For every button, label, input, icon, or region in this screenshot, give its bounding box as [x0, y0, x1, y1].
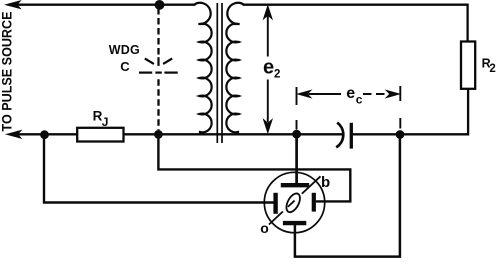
- node junction dot ec right / tube cathode return: [396, 130, 405, 139]
- winding C dashed arrow symbol: [139, 57, 178, 72]
- label e2: [263, 57, 280, 81]
- node junction dot ec left / tube anode: [292, 130, 301, 139]
- label ec: [346, 85, 362, 107]
- resistor R1: [77, 109, 123, 142]
- tube V1 centre ellipse with dashed diagonal: [269, 176, 321, 224]
- svg-text:TO PULSE SOURCE: TO PULSE SOURCE: [0, 12, 15, 132]
- wire bottom rail left (to pulse source, with arrowhead): [7, 131, 78, 139]
- wire top rail right: [243, 5, 468, 42]
- wire winding C dashed link lower: [157, 79, 159, 130]
- svg-text:C: C: [120, 59, 130, 74]
- capacitor C1 flat plate: [350, 123, 353, 149]
- label WDG C: [109, 43, 140, 74]
- transformer T1 primary (left winding): [194, 3, 212, 134]
- wire winding C dashed link upper: [157, 8, 159, 57]
- svg-text:b: b: [321, 174, 330, 191]
- node TO PULSE SOURCE label: [0, 12, 15, 132]
- measurement arrow e2: [264, 6, 272, 133]
- svg-text:c: c: [356, 93, 363, 107]
- wire bottom rail middle: [124, 133, 344, 135]
- tube V1 right electrode and wire loop to winding C junction: [158, 134, 350, 211]
- wire top rail left (to pulse source, with arrowhead): [6, 1, 196, 9]
- wire R2 bottom lead: [466, 89, 468, 135]
- svg-text:e: e: [346, 85, 355, 102]
- node junction dot winding C bottom: [154, 130, 163, 139]
- node ec left boundary (dashed): [296, 87, 298, 130]
- svg-text:2: 2: [489, 63, 495, 75]
- svg-text:2: 2: [274, 69, 280, 81]
- svg-text:e: e: [263, 57, 274, 79]
- transformer T1 core: [217, 3, 222, 143]
- tube V1 envelope: [264, 172, 324, 232]
- resistor R2: [461, 42, 496, 89]
- tube V1 top electrode: [281, 134, 309, 185]
- svg-text:WDG: WDG: [109, 43, 140, 57]
- node ec right boundary (dashed): [399, 86, 401, 129]
- node junction dot bottom left: [40, 130, 49, 139]
- node junction dot top (winding C tap): [155, 0, 165, 10]
- svg-text:o: o: [260, 220, 269, 236]
- tube V1 bottom electrode and return wire: [283, 135, 400, 257]
- transformer T1 secondary (right winding): [226, 3, 244, 134]
- svg-text:J: J: [102, 115, 109, 129]
- tube V1 left electrode and wire from bottom-left junction: [44, 135, 276, 214]
- wire bottom rail right: [353, 133, 468, 135]
- capacitor C1 curved plate: [336, 123, 343, 148]
- measurement arrow ec: [298, 90, 399, 97]
